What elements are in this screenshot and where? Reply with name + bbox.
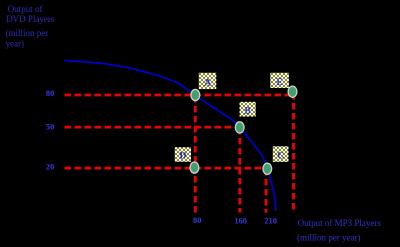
svg-text:D: D bbox=[179, 152, 186, 162]
dashed vertical line at point E bbox=[292, 93, 295, 213]
point A bbox=[191, 89, 200, 100]
dashed horizontal line y=80 bbox=[65, 94, 290, 97]
svg-text:80: 80 bbox=[46, 89, 54, 98]
label box C bbox=[273, 146, 289, 162]
svg-text:year): year) bbox=[6, 38, 24, 48]
svg-text:160: 160 bbox=[234, 217, 247, 226]
dashed vertical line x=80 bbox=[194, 96, 197, 213]
svg-text:(million per year): (million per year) bbox=[297, 233, 360, 243]
svg-text:A: A bbox=[204, 78, 211, 88]
point D bbox=[190, 162, 199, 173]
svg-text:B: B bbox=[244, 106, 251, 116]
label box E bbox=[270, 73, 289, 88]
point E bbox=[288, 86, 297, 97]
svg-text:210: 210 bbox=[264, 217, 277, 226]
dashed vertical line x=160 bbox=[238, 128, 241, 213]
label box B bbox=[240, 102, 256, 117]
dashed vertical line x=210 bbox=[265, 169, 268, 213]
label box A bbox=[199, 73, 217, 89]
svg-text:Output of: Output of bbox=[8, 4, 43, 14]
point B bbox=[235, 122, 244, 133]
y-axis title bbox=[6, 4, 55, 49]
dashed horizontal line y=20 bbox=[65, 167, 264, 170]
dashed horizontal line y=50 bbox=[65, 126, 235, 129]
svg-text:80: 80 bbox=[193, 216, 201, 225]
svg-text:E: E bbox=[276, 78, 282, 88]
svg-text:DVD Players: DVD Players bbox=[6, 14, 55, 24]
svg-text:50: 50 bbox=[46, 123, 54, 132]
point C bbox=[263, 163, 272, 174]
svg-text:(million per: (million per bbox=[6, 28, 49, 38]
x-axis title bbox=[297, 218, 381, 242]
PPF curve bbox=[64, 61, 276, 212]
svg-text:20: 20 bbox=[46, 162, 54, 171]
svg-text:Output of MP3 Players: Output of MP3 Players bbox=[298, 218, 382, 228]
svg-text:C: C bbox=[277, 151, 284, 161]
label box D bbox=[175, 147, 191, 162]
